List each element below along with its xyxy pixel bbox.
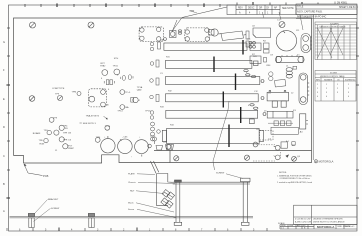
- capacitor C21 big: [101, 136, 115, 153]
- svg-text:1: 1: [326, 84, 327, 86]
- svg-text:SEE NOTE 3: SEE NOTE 3: [83, 123, 97, 125]
- svg-text:COMPTYPE: COMPTYPE: [52, 88, 65, 90]
- capacitor C5 pill: [121, 75, 126, 80]
- svg-text:BRD 49562A: BRD 49562A: [338, 225, 351, 228]
- leader wires to revision flags: [263, 12, 304, 30]
- svg-text:3: 3: [326, 92, 327, 94]
- capacitor C22 big: [118, 139, 133, 154]
- fuse holder XF1: [301, 34, 312, 53]
- transistor Q2: [114, 69, 120, 75]
- zone tick marks bottom: [7, 228, 267, 232]
- svg-text:2: 2: [326, 88, 327, 90]
- svg-text:TPM: TPM: [72, 92, 77, 94]
- svg-text:XX VER: XX VER: [330, 72, 338, 74]
- right column labels: [252, 20, 303, 159]
- svg-text:CK: CK: [266, 8, 270, 10]
- svg-text:PLATE: PLATE: [128, 173, 135, 176]
- version control table: [315, 71, 356, 102]
- svg-text:NUT: NUT: [130, 191, 135, 193]
- zone tick marks right: [356, 28, 359, 198]
- capacitor C46: [281, 142, 289, 157]
- transistor Q10: [133, 97, 138, 102]
- svg-text:A: A: [3, 209, 5, 213]
- zone tick marks left + letters: [6, 28, 10, 198]
- svg-text:DIM IN INCH TOL ON DEC ANGLE: DIM IN INCH TOL ON DEC ANGLE: [313, 220, 345, 223]
- svg-text:1. NUMERICAL PORTION OF REF DE: 1. NUMERICAL PORTION OF REF DESIG.: [277, 175, 312, 178]
- svg-text:PREP: PREP: [68, 148, 74, 150]
- svg-text:ASSY, CAPTURE P.W.B.: ASSY, CAPTURE P.W.B.: [297, 11, 323, 14]
- mounting hole H2: [88, 22, 94, 28]
- relay K1: [139, 27, 166, 42]
- transistor Q11: [120, 105, 125, 110]
- svg-text:*: *: [131, 157, 132, 159]
- lock washer W1 hatched: [161, 189, 175, 208]
- standoff post A side view: [28, 213, 34, 227]
- transistor Q9: [120, 90, 125, 95]
- diode CR1 skewed body: [218, 31, 246, 41]
- svg-text:A 4/85 C1/50 C/W: A 4/85 C1/50 C/W: [295, 220, 311, 223]
- bracket labels side view: [48, 198, 60, 210]
- capacitor C44: [253, 145, 280, 150]
- svg-text:C: C: [3, 154, 5, 158]
- svg-text:Chassis: Chassis: [128, 182, 137, 184]
- svg-text:TPR CN: TPR CN: [63, 133, 72, 135]
- svg-text:NUMBER: NUMBER: [324, 80, 333, 82]
- svg-text:VERSION CONTROL TABLE: VERSION CONTROL TABLE: [320, 26, 347, 29]
- PCB label with leader arrow: [24, 164, 43, 176]
- transistor Q20 with heatsink: [267, 90, 288, 107]
- svg-text:2. marked to req ASSOCIA LETTE: 2. marked to req ASSOCIA LETTER, if used: [277, 181, 312, 184]
- transistor Q8 in dashed box: [89, 89, 107, 107]
- svg-text:SCALE: SCALE: [278, 222, 285, 225]
- svg-text:2: 2: [337, 88, 338, 90]
- long leader wire from bar5 to detail: [213, 101, 229, 170]
- title block: [280, 205, 357, 229]
- svg-text:ITEM: ITEM: [189, 11, 194, 13]
- transistor Q14: [54, 130, 59, 135]
- upper cluster labels: [52, 58, 151, 113]
- tables column separator wire: [312, 15, 314, 161]
- bar value labels: [160, 39, 259, 127]
- svg-text:EVT: EVT: [68, 145, 73, 147]
- transistor Q18: [63, 144, 68, 149]
- trimpot R2: [178, 30, 182, 34]
- svg-text:AP: AP: [274, 7, 278, 10]
- connector J3 with bumps: [267, 111, 293, 118]
- revision leader line: [172, 7, 228, 32]
- test point TP2: [95, 138, 100, 143]
- resistor R53: [275, 79, 286, 87]
- notes text: [277, 172, 312, 184]
- capacitor C41: [269, 72, 273, 81]
- svg-text:MOTOROLA: MOTOROLA: [319, 160, 334, 164]
- svg-text:E: E: [3, 97, 5, 101]
- component density table top right: [315, 22, 357, 60]
- copyright motorola note: [314, 160, 317, 163]
- svg-text:Screw: Screw: [128, 208, 134, 211]
- capacitor C7 pill: [131, 97, 134, 102]
- svg-text:STH: STH: [114, 58, 119, 60]
- card edge line: [154, 150, 312, 152]
- svg-text:QAD: QAD: [137, 88, 142, 91]
- mounting hole H3: [279, 22, 285, 28]
- svg-text:TITLE: TITLE: [297, 7, 304, 9]
- svg-text:NOTES:: NOTES:: [279, 172, 287, 174]
- mounting hole H5: [174, 156, 179, 161]
- resistor assembly RN1 bar1: [164, 40, 256, 55]
- mounting hole H4: [29, 96, 35, 102]
- svg-text:MA: MA: [125, 106, 129, 109]
- svg-text:DESC: DESC: [248, 8, 255, 10]
- svg-text:3: 3: [337, 92, 338, 94]
- resistor R54 row: [268, 121, 298, 134]
- svg-text:SCREW: SCREW: [216, 172, 225, 174]
- svg-text:REV: REV: [238, 8, 243, 10]
- svg-text:CHK: CHK: [289, 225, 294, 227]
- test point TP10: [105, 125, 110, 130]
- relay K3: [300, 114, 306, 129]
- mounting hole H7: [292, 156, 297, 161]
- svg-text:TP10: TP10: [105, 126, 111, 128]
- svg-text:2: 2: [348, 88, 349, 90]
- power resistor R52 axial: [275, 55, 304, 62]
- svg-text:UNLESS OTHERWISE SPECIFD: UNLESS OTHERWISE SPECIFD: [313, 219, 343, 221]
- svg-text:4: 4: [348, 96, 349, 98]
- connector J2 vertical: [299, 73, 309, 105]
- screw S1 left post detail: [174, 180, 182, 225]
- svg-text:XX AFFV: XX AFFV: [330, 22, 340, 25]
- capacitor C42: [264, 58, 297, 70]
- svg-text:BRACKET: BRACKET: [48, 198, 59, 201]
- svg-text:B: B: [3, 182, 5, 186]
- svg-text:FD: FD: [65, 128, 68, 130]
- svg-text:TP14: TP14: [117, 111, 123, 113]
- svg-text:Wash: Wash: [128, 203, 134, 205]
- svg-text:TPM: TPM: [96, 137, 101, 139]
- detail view leader wires: [136, 174, 176, 218]
- svg-text:D: D: [3, 125, 5, 129]
- PCB outline: [14, 18, 312, 163]
- power resistor assembly bar6: [162, 125, 263, 150]
- svg-text:TP+5: TP+5: [125, 92, 131, 94]
- resistor assembly RN3 bar3: [166, 74, 265, 91]
- capacitor C6 pill: [129, 75, 134, 80]
- side view board edge-on: [10, 217, 254, 218]
- svg-text:DR: DR: [259, 8, 263, 10]
- svg-text:PCB: PCB: [43, 174, 49, 178]
- capacitor C45: [253, 152, 280, 161]
- IC U1: [253, 28, 271, 38]
- inductor L1 toroid stack: [286, 68, 292, 79]
- svg-text:TPA2: TPA2: [100, 65, 106, 68]
- svg-text:3: 3: [348, 92, 349, 94]
- resistor R51 rect: [250, 56, 261, 64]
- mounting hole H1: [30, 22, 36, 28]
- screw S2 right post detail: [241, 178, 251, 225]
- transistor Q13: [59, 125, 64, 130]
- capacitor C1 large electrolytic: [276, 31, 296, 51]
- capacitor C23 big: [135, 140, 149, 157]
- svg-text:3: 3: [317, 92, 318, 94]
- svg-text:SEE NOTE: SEE NOTE: [282, 8, 294, 10]
- relay K2: [185, 28, 210, 42]
- detail view section labels left: [128, 173, 137, 212]
- svg-text:TP12: TP12: [150, 136, 156, 138]
- svg-text:TP41: TP41: [113, 66, 119, 68]
- detail view bracket: [151, 161, 173, 206]
- small parts right margin of board: [306, 121, 308, 125]
- svg-text:TP1A: TP1A: [137, 86, 143, 89]
- svg-text:TRA-STGE N: TRA-STGE N: [86, 115, 100, 118]
- transistor Q1: [102, 70, 108, 76]
- svg-text:VERSION CONTROL TABLE: VERSION CONTROL TABLE: [320, 75, 345, 78]
- svg-text:SCHEM NO: SCHEM NO: [345, 80, 356, 82]
- svg-text:TPE: TPE: [39, 140, 44, 142]
- svg-text:TPR CS: TPR CS: [63, 139, 72, 141]
- svg-text:SHEET 1 RE 84 C: SHEET 1 RE 84 C: [339, 7, 358, 9]
- test point TP1: [57, 95, 62, 100]
- svg-text:2: 2: [317, 88, 318, 90]
- svg-text:M: M: [315, 160, 317, 163]
- capacitor C40 squares: [264, 43, 270, 53]
- svg-text:TP16: TP16: [145, 111, 151, 113]
- capacitor C3 pair: [104, 80, 114, 85]
- capacitor C43 dashed outline: [260, 131, 274, 141]
- svg-text:2M 4956L: 2M 4956L: [337, 3, 348, 5]
- svg-text:1: 1: [317, 84, 318, 86]
- zone tick marks top: [25, 2, 318, 7]
- mounting hole H6: [244, 155, 249, 160]
- svg-text:SCREW: SCREW: [51, 208, 60, 210]
- capacitor C2: [246, 31, 249, 47]
- resistor R50 rect: [250, 43, 261, 51]
- test point TP11: [77, 92, 81, 96]
- lower cluster labels: [33, 115, 111, 152]
- svg-text:MOTOROLA: MOTOROLA: [317, 225, 335, 229]
- transistor Q17: [44, 138, 48, 142]
- svg-text:4: 4: [326, 96, 327, 98]
- svg-text:1: 1: [348, 84, 349, 86]
- resistor assembly RN4 bar4: [166, 92, 265, 108]
- standoff post B side view: [88, 213, 94, 227]
- svg-text:4: 4: [317, 96, 318, 98]
- pot T1: [209, 29, 219, 36]
- resistor R55 pair: [292, 142, 295, 145]
- TO-92 parts on card edge: [148, 137, 174, 150]
- svg-text:4 C03 83 05 C/W: 4 C03 83 05 C/W: [295, 219, 310, 221]
- transistor Q15: [47, 130, 51, 134]
- svg-text:RUN: RUN: [40, 144, 45, 146]
- resistor assembly RN2 bar2: [166, 57, 259, 73]
- revision block top right: [227, 2, 357, 19]
- svg-text:- C65: - C65: [122, 137, 128, 139]
- svg-text:CR4: CR4: [266, 65, 271, 67]
- capacitors left of bars: [150, 42, 161, 141]
- resistor assembly RN5 bar5: [166, 107, 266, 124]
- detail board line: [173, 182, 250, 184]
- transistor Q12: [49, 118, 54, 123]
- svg-text:1: 1: [337, 84, 338, 86]
- svg-text:G: G: [3, 40, 5, 44]
- svg-text:BOARF: BOARF: [33, 132, 41, 135]
- trimpot R1: [170, 31, 177, 38]
- leader arrow after note: [80, 116, 108, 123]
- svg-text:CORRESPONDING TO No. of Ref no: CORRESPONDING TO No. of Ref no.: [280, 178, 311, 180]
- transistor Q16: [59, 137, 64, 142]
- svg-text:APP: APP: [297, 224, 302, 227]
